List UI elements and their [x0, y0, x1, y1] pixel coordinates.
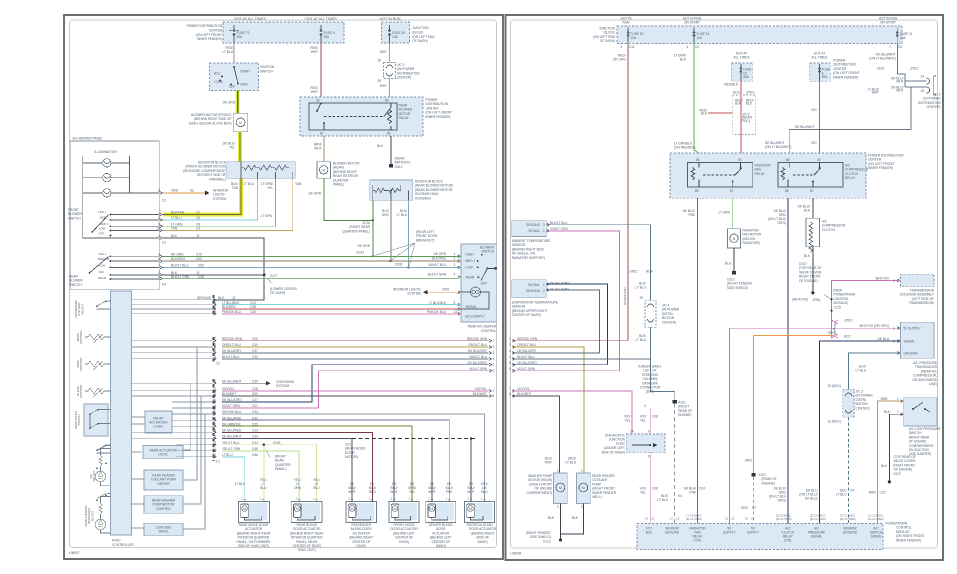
svg-text:C4: C4 — [162, 283, 166, 287]
right page frame — [506, 15, 944, 560]
svg-text:DK BLU/GRY: DK BLU/GRY — [550, 287, 570, 291]
svg-text:87: 87 — [320, 132, 324, 136]
svg-text:7: 7 — [509, 387, 511, 391]
power distribution center / rear blower motor relay — [300, 97, 423, 136]
svg-text:M: M — [243, 507, 246, 511]
svg-text:1: 1 — [581, 469, 583, 473]
svg-text:8: 8 — [214, 392, 216, 396]
svg-text:HOT IN RUNON START: HOT IN RUNON START — [879, 17, 898, 25]
svg-text:5: 5 — [493, 363, 495, 367]
svg-text:85: 85 — [785, 189, 789, 193]
svg-text:J/TEC: J/TEC — [910, 67, 920, 71]
svg-text:TAN: TAN — [295, 182, 302, 186]
svg-text:3: 3 — [644, 404, 646, 408]
svg-text:K4: K4 — [678, 494, 682, 498]
passenger blend door actuator M3 — [346, 502, 377, 523]
svg-text:1: 1 — [543, 283, 545, 287]
svg-text:C27: C27 — [252, 398, 258, 402]
svg-text:ORG: ORG — [745, 459, 753, 463]
svg-text:BLK/TAN: BLK/TAN — [231, 182, 239, 190]
svg-text:C08: C08 — [652, 487, 658, 491]
svg-text:C22: C22 — [880, 491, 886, 495]
svg-text:BLK/LT BLU: BLK/LT BLU — [470, 355, 488, 359]
svg-text:RED/DK GRN: RED/DK GRN — [623, 287, 627, 305]
svg-text:OFF: OFF — [99, 232, 105, 236]
svg-text:START: START — [240, 70, 250, 74]
fuse 20 — [627, 28, 629, 44]
RED/DK GRN long wire from fuse 20 — [627, 44, 629, 341]
svg-text:2: 2 — [493, 345, 495, 349]
HVAC controller box — [111, 291, 132, 535]
svg-text:C7: C7 — [196, 211, 200, 215]
svg-text:HOT AT ALL TIMES: HOT AT ALL TIMES — [305, 17, 337, 21]
svg-text:REAR: REAR — [466, 275, 476, 279]
svg-text:6: 6 — [493, 369, 495, 373]
svg-text:OFF: OFF — [99, 270, 105, 274]
svg-text:15: 15 — [920, 89, 924, 93]
svg-text:1: 1 — [493, 339, 495, 343]
svg-text:ORG: ORG — [442, 288, 450, 292]
svg-text:OFF: OFF — [481, 281, 487, 285]
svg-text:C1: C1 — [216, 460, 220, 464]
svg-text:BLK: BLK — [548, 516, 555, 520]
svg-text:BLK: BLK — [218, 296, 225, 300]
a/c low pressure switch — [904, 398, 937, 426]
evaporator temperature sensor — [512, 280, 547, 298]
svg-text:85: 85 — [695, 189, 699, 193]
svg-text:4: 4 — [158, 252, 160, 256]
svg-text:TAN: TAN — [171, 227, 178, 231]
hvac wires box to pins — [132, 300, 214, 528]
svg-text:DK BLU: DK BLU — [877, 337, 889, 341]
svg-text:9: 9 — [214, 441, 216, 445]
svg-text:J/TEC: J/TEC — [629, 270, 639, 274]
svg-text:HOT IN RUNON START: HOT IN RUNON START — [683, 17, 702, 25]
svg-text:VIO/YEL: VIO/YEL — [475, 387, 488, 391]
a/c compressor clutch relay — [778, 163, 843, 187]
svg-text:C11: C11 — [629, 45, 635, 49]
svg-text:LOW: LOW — [466, 265, 473, 269]
svg-text:BLK: BLK — [171, 234, 178, 238]
svg-text:C70: C70 — [196, 252, 202, 256]
svg-text:4: 4 — [509, 355, 511, 359]
svg-text:DK BLU/ORG: DK BLU/ORG — [550, 282, 570, 286]
svg-text:WASHER PUMPMOTOR (REAR)(RIGHT: WASHER PUMPMOTOR (REAR)(RIGHT FRONTOF EN… — [526, 474, 552, 495]
svg-text:4: 4 — [493, 357, 495, 361]
fuse K — [320, 25, 322, 43]
svg-text:14: 14 — [920, 75, 924, 79]
svg-text:C2: C2 — [695, 45, 699, 49]
svg-text:BLK/TAN: BLK/TAN — [171, 211, 185, 215]
svg-text:5: 5 — [214, 435, 216, 439]
svg-text:HOT IN RUN: HOT IN RUN — [380, 17, 401, 21]
svg-text:LT GRN/BLK(ON RED/BLK): LT GRN/BLK(ON RED/BLK) — [674, 142, 695, 150]
svg-text:SERIAL: SERIAL — [466, 305, 478, 309]
pink 5V supply line — [729, 328, 900, 523]
svg-text:2: 2 — [509, 343, 511, 347]
svg-text:C277: C277 — [270, 274, 278, 278]
svg-text:2: 2 — [214, 387, 216, 391]
svg-text:1: 1 — [454, 252, 456, 256]
svg-text:REAR: REAR — [98, 276, 106, 280]
svg-text:X236: X236 — [395, 262, 403, 266]
pin chevrons left page — [160, 192, 492, 459]
svg-text:NCA: NCA — [877, 67, 885, 71]
svg-text:RED/BLK: RED/BLK — [724, 83, 739, 87]
hvac sub-boxes — [145, 411, 172, 433]
svg-text:[4] C1 (JTEC): [4] C1 (JTEC) — [840, 517, 856, 521]
svg-text:3: 3 — [893, 340, 895, 344]
svg-text:LT BLU: LT BLU — [235, 482, 246, 486]
svg-text:LT BLU: LT BLU — [171, 216, 182, 220]
svg-text:9: 9 — [214, 301, 216, 305]
BRN/WHT wire relay to rear motor — [323, 136, 325, 162]
svg-text:BLK: BLK — [881, 464, 888, 468]
svg-text:8: 8 — [509, 392, 511, 396]
svg-text:7: 7 — [158, 263, 160, 267]
svg-text:1: 1 — [557, 469, 559, 473]
svg-text:2C41: 2C41 — [356, 251, 364, 255]
svg-text:16: 16 — [377, 59, 381, 63]
svg-text:RED/BLK: RED/BLK — [699, 109, 707, 116]
svg-text:ACC: ACC — [214, 72, 221, 76]
svg-text:9: 9 — [454, 301, 456, 305]
WHT wire fuse 26 to J/C3 — [389, 43, 391, 97]
svg-text:C2: C2 — [676, 517, 680, 521]
svg-text:C60: C60 — [198, 263, 204, 267]
svg-text:VIO/LT GRN: VIO/LT GRN — [222, 404, 240, 408]
svg-text:BLK: BLK — [725, 262, 732, 266]
blower switch (rear a/c-heater control) box — [461, 244, 497, 322]
svg-text:DK BLU/GRY: DK BLU/GRY — [468, 349, 488, 353]
svg-text:BLOWER MOTOR (FRONT)(BEHIND RI: BLOWER MOTOR (FRONT)(BEHIND RIGHT SIDE O… — [189, 113, 232, 126]
svg-text:M: M — [582, 486, 585, 490]
svg-text:(WHT/VIO): (WHT/VIO) — [792, 298, 808, 302]
svg-text:DK GRN: DK GRN — [358, 244, 371, 248]
svg-text:C2: C2 — [731, 517, 735, 521]
radiator fan motor — [728, 229, 741, 248]
rear mode door actuator M1 — [239, 502, 270, 523]
svg-text:C6: C6 — [196, 216, 200, 220]
svg-text:RED/WHT: RED/WHT — [310, 46, 318, 54]
svg-text:C56: C56 — [252, 453, 258, 457]
svg-text:4: 4 — [214, 355, 216, 359]
diagnostic junction port — [626, 434, 665, 453]
svg-text:ORG: ORG — [741, 506, 749, 510]
svg-text:J/TEC: J/TEC — [844, 319, 854, 323]
svg-text:3: 3 — [158, 216, 160, 220]
a/c pressure transducer — [901, 322, 935, 358]
svg-text:7: 7 — [493, 389, 495, 393]
svg-text:14: 14 — [630, 430, 634, 434]
svg-text:[2] C1 (JTEC): [2] C1 (JTEC) — [810, 517, 826, 521]
svg-text:10: 10 — [212, 453, 216, 457]
wire RED/LT BLU fuse73 to ignition — [233, 43, 235, 63]
svg-text:WHT/VIO: WHT/VIO — [875, 276, 889, 280]
svg-text:BLK/LT BLU: BLK/LT BLU — [171, 263, 189, 267]
svg-text:2: 2 — [454, 257, 456, 261]
svg-text:(P/N): (P/N) — [813, 298, 820, 302]
svg-text:DK ORN: DK ORN — [434, 252, 447, 256]
RED/BLK wire fuse15 to radiator fan relay — [740, 81, 742, 162]
svg-text:1: 1 — [509, 337, 511, 341]
svg-text:ORG/LT BLU: ORG/LT BLU — [565, 456, 576, 464]
svg-text:PNK/DK BLU: PNK/DK BLU — [427, 310, 447, 314]
svg-text:86: 86 — [786, 158, 790, 162]
actuator captions — [237, 523, 498, 552]
svg-text:87: 87 — [810, 189, 814, 193]
svg-text:2: 2 — [893, 279, 895, 283]
ORG row to interior lights — [163, 192, 205, 194]
X101 dashed sensor ground — [651, 359, 675, 400]
svg-text:6: 6 — [648, 455, 650, 459]
svg-text:GROUND: GROUND — [904, 352, 919, 356]
J/C 3 connector (left page) — [384, 63, 396, 79]
svg-text:RED/DK ORN: RED/DK ORN — [467, 337, 488, 341]
recirculation door actuator M6 — [465, 502, 495, 523]
svg-text:85: 85 — [387, 132, 391, 136]
hvac left side components — [85, 301, 111, 533]
svg-text:12: 12 — [212, 422, 216, 426]
fuse 11 — [896, 28, 898, 44]
svg-text:L98007: L98007 — [69, 551, 80, 555]
svg-text:LT BLU: LT BLU — [243, 182, 254, 186]
svg-text:NCA: NCA — [733, 91, 741, 95]
svg-text:7: 7 — [889, 45, 891, 49]
svg-text:BRN: BRN — [881, 397, 888, 401]
PCM pin codes — [645, 514, 884, 521]
svg-text:SENSORGROUND: SENSORGROUND — [665, 527, 680, 535]
svg-text:8: 8 — [158, 189, 160, 193]
svg-text:VIO/YEL: VIO/YEL — [640, 487, 647, 495]
svg-text:5: 5 — [158, 275, 160, 279]
svg-text:DK BLU/ORG: DK BLU/ORG — [222, 398, 242, 402]
J/C 3 (right page) — [843, 389, 854, 417]
svg-text:VIO/YEL: VIO/YEL — [640, 415, 646, 423]
svg-text:16: 16 — [212, 398, 216, 402]
svg-text:C4: C4 — [196, 227, 200, 231]
power distribution center box with relays — [670, 153, 866, 198]
svg-text:WHT: WHT — [380, 50, 387, 54]
svg-text:8: 8 — [493, 394, 495, 398]
powertrain control module box — [637, 524, 883, 550]
svg-text:BLK/WHT: BLK/WHT — [473, 392, 487, 396]
svg-text:C21: C21 — [252, 404, 258, 408]
svg-text:DK GRN: DK GRN — [309, 192, 322, 196]
orange branch — [754, 335, 835, 473]
svg-text:LT GRN: LT GRN — [719, 211, 731, 215]
DK BLU/ORG a/c relay 85 to PCM — [787, 198, 789, 523]
svg-text:1: 1 — [897, 410, 899, 414]
svg-text:5V SUPPLY: 5V SUPPLY — [904, 327, 922, 331]
ignition switch — [210, 63, 259, 91]
svg-text:LT GRN: LT GRN — [261, 214, 273, 218]
svg-text:15 (NGC): 15 (NGC) — [827, 384, 841, 388]
wires below resistor: BLK/TAN(highlight) LT BLU LT GRN TAN — [163, 178, 241, 214]
J/C 4 connector — [645, 301, 656, 328]
svg-text:C2: C2 — [162, 199, 166, 203]
svg-text:2: 2 — [543, 289, 545, 293]
LT GRN/BLK wire from fuse 16 — [694, 44, 699, 163]
wire DK GRN (highlighted) ignition to blower motor — [236, 91, 240, 114]
front mode door actuator M4 — [389, 502, 419, 523]
svg-text:2: 2 — [897, 397, 899, 401]
svg-text:14: 14 — [212, 416, 216, 420]
svg-text:HOT AT ALL TIMES: HOT AT ALL TIMES — [234, 17, 266, 21]
svg-text:DK BLU/ORG: DK BLU/ORG — [467, 361, 487, 365]
svg-text:1: 1 — [158, 211, 160, 215]
svg-text:20: 20 — [639, 296, 643, 300]
resistor block (rear blower motor) — [370, 180, 413, 200]
svg-text:SIGNAL: SIGNAL — [904, 340, 916, 344]
left page frame — [64, 15, 503, 559]
svg-text:X7: X7 — [752, 506, 756, 510]
svg-text:NCC: NCC — [844, 335, 852, 339]
svg-text:ORG: ORG — [828, 331, 836, 335]
actuator boxes — [239, 496, 495, 522]
blower motor (front) — [234, 113, 248, 131]
svg-text:RUN: RUN — [241, 83, 249, 87]
svg-text:86: 86 — [385, 99, 389, 103]
svg-text:BRN/WHT: BRN/WHT — [314, 143, 322, 151]
svg-text:3: 3 — [509, 349, 511, 353]
svg-text:M: M — [394, 507, 397, 511]
svg-text:NCA: NCA — [646, 270, 654, 274]
svg-text:K4: K4 — [851, 489, 855, 493]
svg-text:M: M — [430, 507, 433, 511]
svg-text:10: 10 — [212, 343, 216, 347]
svg-text:DK GRN: DK GRN — [223, 101, 236, 105]
svg-text:5: 5 — [509, 361, 511, 365]
svg-text:J/TEC: J/TEC — [746, 91, 756, 95]
fuse 16 — [693, 28, 695, 44]
svg-text:GROUND: GROUND — [526, 223, 541, 227]
rear heater coolant pump — [576, 473, 590, 504]
svg-text:C2: C2 — [216, 362, 220, 366]
svg-text:BLK: BLK — [884, 410, 891, 414]
svg-text:1: 1 — [543, 229, 545, 233]
svg-text:PCIBUS: PCIBUS — [646, 527, 653, 535]
svg-text:WHT: WHT — [380, 84, 387, 88]
RED/WHT wire fuse K to rear blower relay — [320, 43, 322, 97]
svg-text:2: 2 — [893, 327, 895, 331]
svg-text:13: 13 — [454, 310, 458, 314]
svg-text:M: M — [559, 486, 562, 490]
svg-text:BLK: BLK — [377, 144, 384, 148]
junction block fuse 26 — [382, 22, 410, 43]
svg-text:HIGH: HIGH — [466, 252, 475, 256]
svg-text:GROUND: GROUND — [197, 296, 212, 300]
svg-text:BLK/ORG: BLK/ORG — [171, 257, 186, 261]
svg-text:28: 28 — [377, 79, 381, 83]
svg-text:11: 11 — [213, 447, 217, 451]
fuse 73 — [230, 25, 239, 43]
svg-text:M: M — [296, 507, 299, 511]
svg-text:REAR MODE DOORACTUATOR(BEHIND: REAR MODE DOORACTUATOR(BEHIND RIGHT REAR… — [237, 523, 272, 548]
svg-text:B(+) SUPPLY: B(+) SUPPLY — [466, 315, 486, 319]
resistor block (front blower motor) — [227, 162, 296, 179]
svg-text:GROUND: GROUND — [526, 289, 541, 293]
pin column connector dashes — [213, 295, 215, 461]
radiator fan relay — [688, 163, 753, 187]
DK BLU/WHT from fuse 11 to J/C2 and back to a/c relay — [789, 44, 926, 163]
svg-text:BLK: BLK — [804, 254, 811, 258]
svg-text:2: 2 — [557, 505, 559, 509]
svg-text:10: 10 — [156, 227, 160, 231]
svg-text:C2: C2 — [751, 517, 755, 521]
svg-text:15: 15 — [212, 410, 216, 414]
wire DK BLU/YEL (highlighted) motor to resistor block — [238, 132, 242, 162]
svg-text:BLK: BLK — [572, 516, 579, 520]
svg-text:VIO/LT GRN: VIO/LT GRN — [469, 367, 487, 371]
svg-text:ORG: ORG — [171, 189, 179, 193]
svg-text:VIO/YEL: VIO/YEL — [624, 415, 631, 423]
svg-text:2: 2 — [214, 349, 216, 353]
svg-text:C3: C3 — [162, 241, 166, 245]
rear resistor outputs — [372, 200, 374, 220]
VIO wire fuse 8 to a/c relay — [818, 81, 820, 162]
svg-text:OFF: OFF — [229, 85, 235, 89]
svg-text:[2] C1 (JTEC): [2] C1 (JTEC) — [776, 517, 792, 521]
svg-text:11: 11 — [213, 305, 217, 309]
svg-text:LT BLU/BLK: LT BLU/BLK — [429, 301, 447, 305]
pin chevrons right page — [513, 223, 904, 415]
svg-text:M: M — [469, 507, 472, 511]
DK BLU/PNK radiator relay 85 to PCM — [697, 198, 699, 523]
svg-text:6: 6 — [214, 404, 216, 408]
svg-text:30: 30 — [817, 158, 821, 162]
DK BLU/BLK a/c relay 87 to compressor clutch — [812, 198, 814, 218]
svg-text:C5: C5 — [898, 45, 902, 49]
svg-text:86: 86 — [696, 158, 700, 162]
BLK/LT BLU ground from transducer — [849, 353, 901, 390]
svg-text:M: M — [351, 507, 354, 511]
driver blend door actuator M5 — [426, 502, 456, 523]
svg-text:VIO: VIO — [811, 141, 817, 145]
svg-text:BLOWERSWITCH: BLOWERSWITCH — [480, 246, 495, 254]
svg-text:9: 9 — [648, 430, 650, 434]
svg-text:DK BLU/WHT: DK BLU/WHT — [795, 125, 815, 129]
a/c compressor clutch — [806, 218, 820, 247]
svg-text:C2: C2 — [651, 517, 655, 521]
svg-text:HIGH: HIGH — [99, 252, 106, 256]
svg-text:SENSORGROUND: SENSORGROUND — [843, 527, 858, 535]
svg-text:L98008: L98008 — [511, 552, 522, 556]
svg-text:BLK/LT GRN: BLK/LT GRN — [428, 273, 447, 277]
svg-text:E2: E2 — [190, 189, 194, 193]
svg-text:LOW: LOW — [99, 226, 106, 230]
svg-text:7: 7 — [214, 337, 216, 341]
svg-text:4: 4 — [620, 45, 622, 49]
svg-text:WHT/VIO (OR ORG): WHT/VIO (OR ORG) — [859, 324, 889, 328]
svg-text:ORG/LT BLU: ORG/LT BLU — [468, 343, 487, 347]
BLK wire relay 85 to ground G312 — [390, 136, 392, 164]
splice 2C26 — [372, 219, 374, 221]
svg-text:SIGNAL: SIGNAL — [528, 283, 540, 287]
svg-text:[1] C1 (JTEC): [1] C1 (JTEC) — [686, 517, 702, 521]
svg-text:13 (NGC): 13 (NGC) — [827, 420, 841, 424]
svg-text:REAR BLENDDOOR ACTUATOR(BEHIND: REAR BLENDDOOR ACTUATOR(BEHIND RIGHT REA… — [290, 523, 324, 552]
svg-text:6: 6 — [509, 367, 511, 371]
svg-text:J2: J2 — [196, 234, 200, 238]
svg-text:M: M — [322, 169, 325, 173]
svg-text:6: 6 — [158, 257, 160, 261]
svg-text:M: M — [239, 121, 242, 125]
svg-text:30: 30 — [738, 158, 742, 162]
svg-text:18: 18 — [212, 429, 216, 433]
svg-text:RED/WHT: RED/WHT — [310, 86, 318, 94]
svg-text:SIGNAL: SIGNAL — [528, 229, 540, 233]
